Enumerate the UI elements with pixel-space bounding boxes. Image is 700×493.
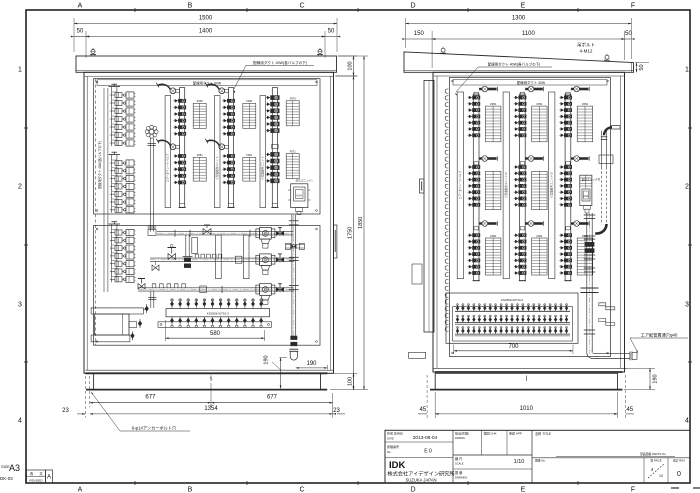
svg-text:F: F bbox=[631, 3, 635, 10]
left view: pipe B bbox=[150, 257, 294, 259]
left view: right side dim 1750 bbox=[336, 75, 358, 77]
left view: pipe A unions bbox=[174, 230, 176, 237]
left view: pipe B coupling box bbox=[235, 256, 242, 263]
left view: pipe B ball valve assembly bbox=[256, 255, 260, 264]
left view: floor sill bbox=[85, 372, 327, 374]
svg-text:677: 677 bbox=[145, 395, 156, 401]
svg-text:4: 4 bbox=[18, 418, 22, 425]
left view: rail 2 bbox=[214, 96, 220, 208]
svg-text:23: 23 bbox=[333, 408, 340, 414]
right view: open door panel bbox=[424, 80, 434, 332]
right view: column 1 group 3 fitting bbox=[482, 221, 488, 227]
svg-text:F052: F052 bbox=[582, 102, 588, 106]
title block: middle cells bbox=[481, 430, 483, 455]
left view: right vertical pipe bbox=[291, 215, 293, 336]
svg-text:50: 50 bbox=[639, 64, 645, 70]
right view: secondary pipe top elbow fitting bbox=[604, 127, 612, 135]
svg-text:小型電磁弁ユニット: 小型電磁弁ユニット bbox=[215, 156, 219, 180]
svg-text:1500: 1500 bbox=[199, 16, 213, 22]
svg-text:100: 100 bbox=[347, 61, 353, 70]
svg-text:4: 4 bbox=[685, 418, 689, 425]
right view: right pressure unit with KGA regulator bbox=[580, 175, 592, 205]
svg-text:エアーオペレートバルブ: エアーオペレートバルブ bbox=[458, 170, 462, 199]
valve band group A bbox=[270, 95, 279, 100]
left view: pipe B globe valve with handwheel bbox=[168, 254, 176, 260]
svg-text:承認 APP: 承認 APP bbox=[509, 431, 522, 436]
right view: panel bracket bbox=[611, 125, 621, 127]
grid column tick marks bbox=[134, 8, 136, 12]
left view: dimension 1500 bbox=[74, 23, 337, 25]
svg-text:図 番: 図 番 bbox=[455, 470, 463, 475]
right view: pipe wide flange pair bbox=[581, 287, 599, 289]
right view: base center mark bbox=[525, 376, 527, 382]
right view: pipe flanges bbox=[584, 214, 595, 216]
right view: cabinet body bbox=[433, 72, 625, 372]
left view: base center mark bbox=[210, 376, 212, 382]
left view: pipe B unions bbox=[195, 254, 199, 258]
left view: right side dim 1850 bbox=[363, 56, 365, 390]
left view: bottom left box side tab bbox=[129, 322, 137, 328]
svg-text:エア配管貫通穴φ40: エア配管貫通穴φ40 bbox=[641, 332, 678, 339]
svg-text:KGA: KGA bbox=[297, 194, 303, 198]
svg-text:SUZUKA JAPAN: SUZUKA JAPAN bbox=[405, 478, 436, 483]
right view: column 1 group 3 valve bands bbox=[472, 233, 480, 237]
svg-text:2: 2 bbox=[685, 184, 689, 191]
svg-text:1300: 1300 bbox=[512, 16, 526, 22]
left view: left fitting stack group 2 bbox=[111, 155, 113, 213]
left view: right pipe cross union fitting bbox=[286, 243, 291, 249]
svg-text:配線用ダクト 40W(各バルブの下): 配線用ダクト 40W(各バルブの下) bbox=[488, 62, 541, 67]
left view: pipe C unions bbox=[152, 284, 156, 288]
svg-text:頁 PAGE: 頁 PAGE bbox=[650, 459, 661, 463]
svg-text:10: 10 bbox=[659, 474, 663, 478]
svg-text:D: D bbox=[410, 487, 415, 493]
left view: regulator lower fittings bbox=[296, 208, 303, 212]
left view: top wiring duct 60W bbox=[97, 80, 317, 86]
svg-text:A: A bbox=[78, 487, 83, 493]
svg-text:1/10: 1/10 bbox=[514, 459, 525, 465]
left view: pipe C ball valve assembly bbox=[256, 285, 260, 294]
left view: door hinge dashed line bbox=[95, 79, 97, 345]
svg-text:担当(作図): 担当(作図) bbox=[455, 431, 469, 436]
right view: rail 3 bbox=[549, 92, 555, 279]
svg-text:吊ボルト: 吊ボルト bbox=[577, 42, 595, 49]
svg-text:配線用ダクト 30W: 配線用ダクト 30W bbox=[517, 80, 546, 85]
svg-text:KS2506-02*10-2: KS2506-02*10-2 bbox=[501, 298, 524, 302]
svg-text:DATE: DATE bbox=[387, 437, 394, 441]
svg-text:取出スイッチ付: 取出スイッチ付 bbox=[582, 178, 601, 182]
right view: eyebolt right bbox=[605, 55, 609, 59]
svg-text:F051: F051 bbox=[536, 102, 542, 106]
right view: dim 700 bbox=[453, 345, 455, 355]
right view: base channel bbox=[435, 373, 617, 389]
svg-text:名称 TITLE: 名称 TITLE bbox=[535, 431, 551, 436]
right view: pipe elbow to exit bbox=[587, 353, 630, 359]
svg-text:2013-08-04: 2013-08-04 bbox=[413, 435, 438, 441]
left view: dimensions 50 / 1400 / 50 bbox=[85, 31, 87, 58]
right view: box mounting brackets bbox=[599, 303, 615, 310]
left view: right pipe bottom valve bbox=[290, 336, 297, 340]
right view: dim 50 roof right bbox=[635, 62, 649, 64]
right view: manifold bar column 2 bbox=[520, 94, 526, 281]
svg-text:1750: 1750 bbox=[347, 227, 353, 239]
svg-text:E: E bbox=[521, 487, 526, 493]
svg-text:100: 100 bbox=[347, 377, 353, 386]
right view: column 2 ladder F060 bbox=[532, 171, 548, 209]
svg-text:580: 580 bbox=[210, 331, 221, 337]
svg-text:50: 50 bbox=[77, 29, 84, 35]
svg-text:B: B bbox=[188, 3, 193, 10]
left view: lower sub plate bbox=[94, 226, 321, 346]
left view: manifold lower valve row bbox=[171, 317, 173, 326]
svg-text:C: C bbox=[299, 3, 304, 10]
left view: dim 100 top right bbox=[338, 55, 357, 57]
manifold bar bbox=[272, 88, 277, 208]
left view: left fitting stack group 3 bbox=[111, 225, 113, 283]
svg-text:作成 年月日: 作成 年月日 bbox=[387, 431, 403, 436]
revision box bbox=[27, 470, 46, 483]
svg-text:No.: No. bbox=[387, 450, 391, 454]
svg-text:45: 45 bbox=[626, 407, 633, 413]
svg-text:150: 150 bbox=[414, 31, 425, 37]
mid goose-neck fitting bbox=[207, 140, 219, 145]
left view: drop pipe from pipe A to pipe B bbox=[185, 235, 187, 257]
right view: fittings below unit bbox=[584, 206, 591, 210]
left view: cabinet body bbox=[84, 72, 334, 373]
fold marks bottom right bbox=[671, 487, 679, 489]
svg-text:検図 CHK: 検図 CHK bbox=[484, 431, 497, 436]
svg-text:部品図番 PARTS No.: 部品図番 PARTS No. bbox=[640, 452, 666, 456]
left view: silencer bell bbox=[289, 348, 298, 350]
svg-text:株式会社アイデザイン研究所: 株式会社アイデザイン研究所 bbox=[387, 470, 454, 478]
svg-text:縮 尺: 縮 尺 bbox=[455, 456, 463, 461]
svg-text:B: B bbox=[188, 487, 193, 493]
left view: pipe A valve bbox=[203, 229, 211, 235]
svg-text:677: 677 bbox=[267, 395, 278, 401]
svg-text:2: 2 bbox=[18, 184, 22, 191]
manifold bar bbox=[228, 88, 233, 208]
right view: terminal rows bbox=[455, 310, 570, 312]
svg-text:1100: 1100 bbox=[522, 31, 536, 37]
svg-text:F060: F060 bbox=[490, 234, 496, 238]
title block bbox=[385, 430, 690, 483]
right view: dim 190 right bbox=[624, 367, 655, 369]
left view: dim 190 horizontal bbox=[326, 365, 328, 370]
right view: column 2 group 3 fitting bbox=[528, 221, 534, 227]
right view: column 1 group 1 valve bands bbox=[472, 96, 480, 100]
svg-text:6-φ14アンカーボルト穴: 6-φ14アンカーボルト穴 bbox=[132, 425, 177, 432]
right view: pipe valve body bbox=[585, 242, 595, 247]
left view: dims 23 / 1354 / 23 bbox=[84, 376, 86, 418]
svg-text:3: 3 bbox=[685, 302, 689, 309]
svg-text:190: 190 bbox=[306, 361, 317, 367]
left view: junction box bolts bbox=[145, 306, 149, 312]
left view: bottom right dim 100 bbox=[330, 372, 358, 374]
svg-text:F061: F061 bbox=[246, 153, 252, 157]
svg-text:F: F bbox=[631, 487, 635, 493]
valve band group B bbox=[178, 154, 186, 158]
right view: door handle bbox=[420, 179, 425, 193]
right view: column 1 group 2 valve bands bbox=[472, 165, 480, 169]
svg-text:整理番号: 整理番号 bbox=[387, 444, 399, 449]
svg-text:45: 45 bbox=[419, 407, 426, 413]
right view: manifold bar column 3 bbox=[565, 94, 571, 281]
right view: column 1 group 1 fitting bbox=[482, 86, 488, 92]
right view: column 1 group 2 fitting bbox=[482, 156, 488, 162]
svg-text:A: A bbox=[47, 475, 51, 481]
svg-text:0: 0 bbox=[677, 471, 681, 478]
svg-text:1: 1 bbox=[685, 67, 689, 74]
right view: valve column 2 tail cap bbox=[519, 280, 526, 282]
svg-text:1400: 1400 bbox=[199, 29, 213, 35]
right view: column 3 group 2 valve bands bbox=[564, 165, 572, 169]
right view: valve column 1 tail cap bbox=[473, 280, 480, 282]
svg-text:50: 50 bbox=[328, 29, 335, 35]
svg-text:F061: F061 bbox=[536, 234, 542, 238]
right view: column 1 ladder F060 bbox=[485, 171, 501, 209]
right view: column 3 group 2 fitting bbox=[574, 156, 580, 162]
left view: bottom left bracket bottom bar bbox=[91, 335, 130, 342]
svg-text:KGA: KGA bbox=[583, 195, 588, 198]
left view: pipe A ball valve assembly bbox=[256, 229, 260, 238]
right view: inner panel bbox=[449, 78, 610, 357]
top goose-neck fitting bbox=[158, 84, 170, 89]
left view: horizontal pipe A bbox=[157, 231, 294, 233]
right view: rail 1 bbox=[457, 92, 463, 279]
valve band group B bbox=[227, 154, 235, 158]
right view: secondary vertical pipe (partly hidden) bbox=[601, 131, 603, 167]
svg-text:A3: A3 bbox=[9, 463, 20, 473]
svg-text:REVISED: REVISED bbox=[29, 479, 43, 483]
bar bottom cap bbox=[271, 206, 278, 208]
svg-text:1: 1 bbox=[18, 67, 22, 74]
left view: drain pipe from pipe C to bracket bbox=[150, 291, 152, 308]
left view: bottom left box body bbox=[95, 314, 130, 335]
svg-text:F071: F071 bbox=[290, 149, 296, 153]
right view: bottom terminal box outer bbox=[446, 293, 578, 343]
right view: column 2 group 1 valve bands bbox=[518, 96, 526, 100]
right view: column 3 group 3 fitting bbox=[574, 221, 580, 227]
svg-text:E 0: E 0 bbox=[424, 449, 432, 455]
svg-text:エアーオペレートバルブ: エアーオペレートバルブ bbox=[166, 153, 170, 182]
svg-text:700: 700 bbox=[508, 344, 519, 350]
svg-text:190: 190 bbox=[264, 355, 270, 364]
left view: top channel bbox=[76, 56, 337, 72]
right view: cable clip column bbox=[445, 89, 446, 93]
svg-text:D: D bbox=[410, 3, 415, 10]
left view: left wiring duct wall bbox=[103, 88, 105, 292]
mid goose-neck fitting bbox=[158, 140, 170, 145]
left view: door handle right side bbox=[334, 225, 337, 258]
right view: dimension 1300 bbox=[406, 23, 632, 25]
manifold bar bbox=[180, 88, 185, 208]
svg-text:DRAWING: DRAWING bbox=[455, 476, 467, 480]
svg-text:改: 改 bbox=[30, 471, 34, 476]
left view: manifold base plate bbox=[158, 322, 272, 328]
svg-text:1010: 1010 bbox=[520, 406, 534, 412]
right view: valve column 3 tail cap bbox=[564, 280, 571, 282]
left view: bottom left bracket top bar bbox=[91, 308, 143, 314]
svg-text:図番 No.: 図番 No. bbox=[535, 459, 546, 463]
right view: dims 45 / 1010 / 45 bbox=[434, 392, 436, 418]
left view: left fitting stack group 1 bbox=[111, 87, 113, 146]
left view: right pipe flanges bbox=[289, 220, 299, 222]
svg-text:50: 50 bbox=[625, 31, 632, 37]
left view: rail 1 bbox=[165, 96, 171, 208]
svg-text:23: 23 bbox=[62, 408, 69, 414]
right view: dims 150 / 1100 / 50 bbox=[431, 31, 433, 68]
svg-text:小型電磁弁ユニット: 小型電磁弁ユニット bbox=[261, 156, 265, 180]
svg-text:1850: 1850 bbox=[358, 217, 364, 229]
left view: upper sub plate bbox=[94, 79, 321, 214]
svg-text:KS2506-02*10-2: KS2506-02*10-2 bbox=[207, 312, 230, 316]
svg-text:SCALE: SCALE bbox=[455, 462, 464, 466]
svg-text:A: A bbox=[78, 3, 83, 10]
svg-text:F070: F070 bbox=[290, 97, 296, 101]
svg-text:小型電磁弁ユニット37: 小型電磁弁ユニット37 bbox=[550, 171, 554, 198]
bar bottom cap bbox=[227, 206, 234, 208]
svg-text:文: 文 bbox=[39, 471, 43, 476]
right view: rail 2 bbox=[503, 92, 509, 279]
grid row tick marks bbox=[24, 127, 28, 129]
svg-text:E: E bbox=[521, 3, 526, 10]
right view: eyebolt left bbox=[441, 48, 445, 52]
right view: column 2 group 2 fitting bbox=[528, 156, 534, 162]
right view: column 2 group 3 valve bands bbox=[518, 233, 526, 237]
title block: page / rev cells bbox=[643, 458, 645, 483]
left view: pipe C coupling box bbox=[200, 286, 207, 293]
right view: column 3 group 3 valve bands bbox=[564, 233, 572, 237]
right view: manifold bar column 1 bbox=[473, 94, 479, 281]
left view: dim 190 vertical bbox=[279, 357, 287, 359]
valve band group A bbox=[227, 99, 235, 103]
svg-text:190: 190 bbox=[653, 374, 659, 383]
right view: top duct 30W bbox=[453, 80, 607, 86]
right view: main vertical pipe bbox=[586, 213, 588, 353]
left view: pipe C bbox=[138, 287, 294, 289]
svg-text:配線用ダクト 40W(各バルブの下): 配線用ダクト 40W(各バルブの下) bbox=[253, 60, 307, 65]
left view: eyebolt left bbox=[91, 50, 95, 54]
svg-text:F050: F050 bbox=[197, 99, 203, 103]
svg-text:IDK: IDK bbox=[389, 460, 406, 471]
valve band group B bbox=[270, 152, 279, 157]
left view: pipe A elbow from vertical pipe bbox=[150, 229, 153, 232]
left view: eyebolt right bbox=[318, 50, 322, 54]
left view: dims 677 / 677 bbox=[89, 376, 91, 407]
right view: bottom terminal box inner bbox=[453, 307, 573, 341]
right view: column 2 group 2 valve bands bbox=[518, 165, 526, 169]
right view: secondary pipe elbow into main pipe bbox=[595, 224, 606, 234]
right view: column 2 group 1 fitting bbox=[528, 86, 534, 92]
svg-text:F060: F060 bbox=[246, 99, 252, 103]
valve band group A bbox=[178, 99, 186, 103]
svg-text:3: 3 bbox=[18, 302, 22, 309]
svg-text:小型電磁弁ユニット37: 小型電磁弁ユニット37 bbox=[504, 171, 508, 198]
svg-text:F050: F050 bbox=[490, 102, 496, 106]
svg-text:C: C bbox=[299, 487, 304, 493]
svg-text:改訂 REV: 改訂 REV bbox=[673, 459, 685, 463]
right view: column 3 group 1 valve bands bbox=[564, 96, 572, 100]
right view: column 3 group 1 fitting bbox=[574, 86, 580, 92]
svg-text:1354: 1354 bbox=[204, 406, 218, 412]
right view: sloped roof bbox=[404, 52, 634, 72]
right view: floor sill bbox=[435, 371, 623, 373]
left view: dim 580 bbox=[164, 320, 166, 341]
top goose-neck fitting bbox=[207, 84, 219, 89]
svg-text:4-M12: 4-M12 bbox=[580, 49, 593, 54]
svg-text:DRAWN: DRAWN bbox=[455, 436, 465, 440]
left view: pipe B left valve bbox=[152, 265, 159, 271]
left view: vertical pipe from cross fitting bbox=[149, 138, 151, 229]
left view: cross manifold fitting bbox=[149, 129, 154, 134]
svg-text:F051: F051 bbox=[197, 153, 203, 157]
left view: rail 3 bbox=[260, 96, 266, 208]
bar bottom cap bbox=[179, 206, 186, 208]
left view: lower rails bbox=[192, 238, 198, 254]
left view: pipe C left valve with handwheel bbox=[138, 284, 145, 290]
svg-text:(ESユニット): (ESユニット) bbox=[296, 179, 313, 183]
right view: door floor stay bbox=[409, 352, 426, 358]
left view: base channel bbox=[94, 373, 321, 389]
svg-text:配線用ダクト 40W(各バルブの下): 配線用ダクト 40W(各バルブの下) bbox=[97, 141, 102, 189]
left view: manifold assembly KS2506 upper valve row bbox=[171, 299, 173, 309]
svg-text:DK-03: DK-03 bbox=[0, 476, 13, 481]
